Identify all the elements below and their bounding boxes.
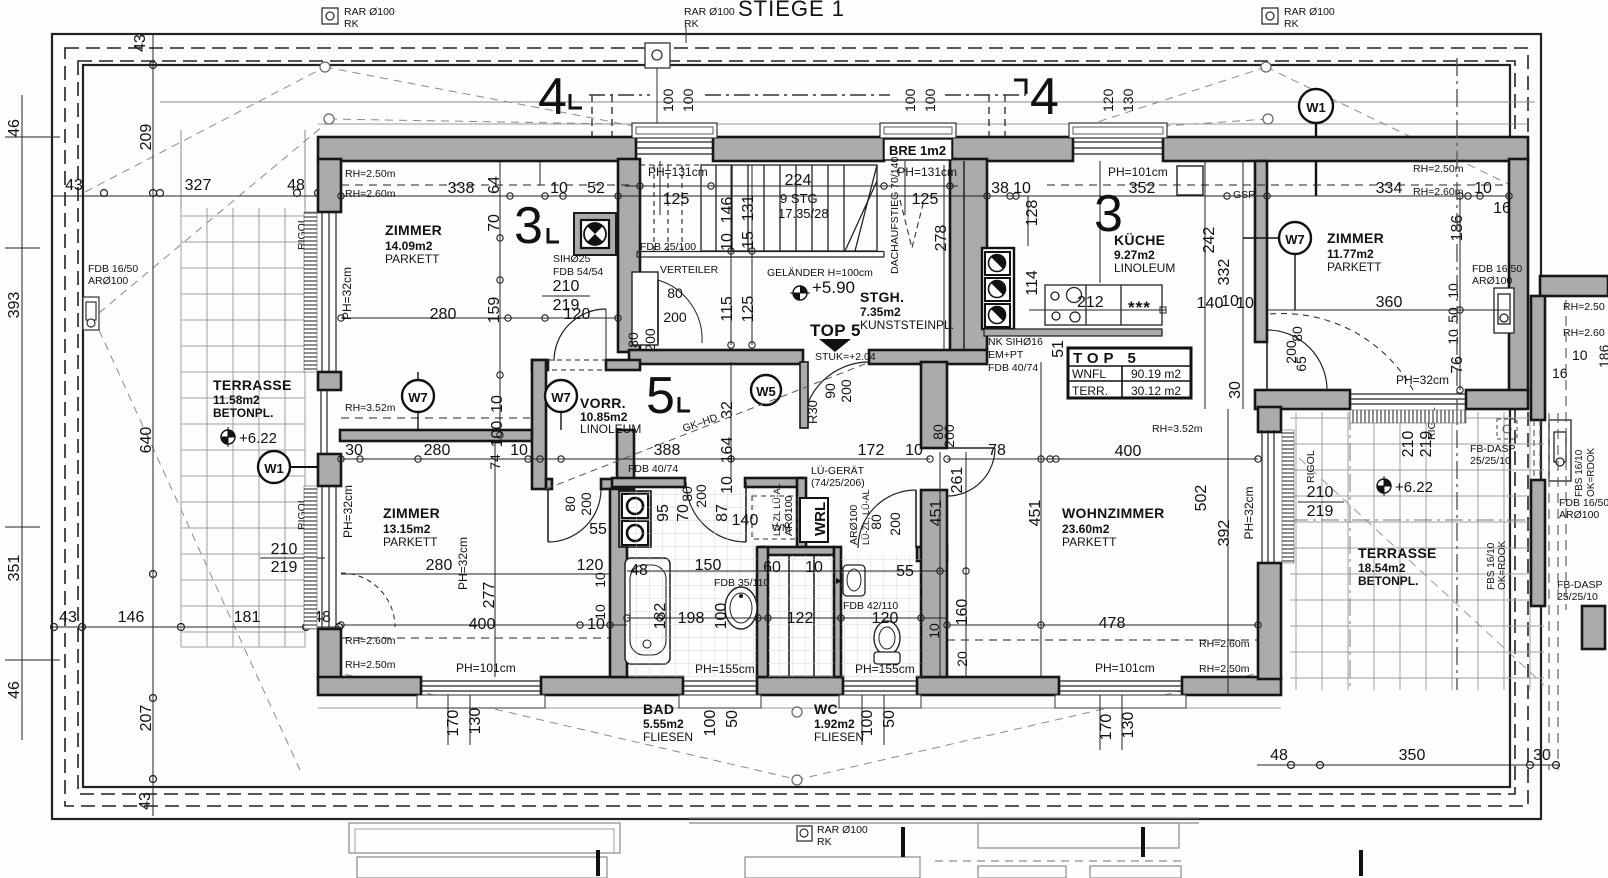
svg-text:332: 332	[1216, 259, 1233, 286]
svg-text:RH=2.60m: RH=2.60m	[1413, 186, 1464, 198]
svg-text:LÜ-GERÄT: LÜ-GERÄT	[811, 465, 865, 477]
svg-text:RIGOL: RIGOL	[1305, 450, 1317, 483]
svg-text:90.19 m2: 90.19 m2	[1131, 367, 1181, 381]
toilet	[874, 621, 900, 664]
svg-text:30: 30	[345, 442, 363, 459]
svg-text:100: 100	[680, 88, 696, 112]
vorr south wall	[340, 430, 532, 441]
wohnzimmer east wall	[1258, 407, 1281, 432]
svg-text:RK: RK	[1284, 18, 1299, 30]
svg-text:10: 10	[805, 559, 823, 576]
svg-text:ZIMMER: ZIMMER	[1327, 230, 1384, 246]
svg-text:200: 200	[941, 424, 957, 448]
svg-text:48: 48	[1270, 747, 1288, 764]
inner dashed frame	[78, 61, 1515, 794]
svg-text:+6.22: +6.22	[1395, 479, 1433, 496]
svg-text:48: 48	[287, 177, 305, 194]
svg-text:11.58m2: 11.58m2	[213, 393, 260, 407]
svg-text:25/25/10: 25/25/10	[1557, 591, 1598, 603]
svg-text:10: 10	[592, 604, 608, 620]
svg-text:PH=155cm: PH=155cm	[695, 662, 755, 676]
dims near left terrace	[271, 278, 1435, 576]
svg-text:186: 186	[1596, 344, 1608, 368]
svg-text:10: 10	[1013, 180, 1031, 197]
W markers	[258, 222, 1311, 483]
svg-text:277: 277	[481, 582, 498, 609]
svg-text:RK: RK	[344, 18, 359, 30]
svg-text:32: 32	[719, 401, 736, 419]
svg-text:RAR Ø100: RAR Ø100	[1284, 6, 1335, 18]
svg-text:170: 170	[1098, 714, 1115, 741]
svg-text:100: 100	[922, 88, 938, 112]
svg-text:278: 278	[933, 225, 950, 252]
svg-text:RH=2.50m: RH=2.50m	[1199, 663, 1250, 675]
bad west wall	[610, 489, 627, 677]
stairwell right / kueche wall	[950, 159, 987, 351]
svg-text:7.35m2: 7.35m2	[860, 305, 901, 319]
svg-text:60: 60	[763, 559, 781, 576]
svg-text:210: 210	[553, 278, 580, 295]
svg-text:224: 224	[785, 172, 812, 189]
svg-text:TOP 5: TOP 5	[810, 321, 861, 340]
SIH in top wall	[574, 213, 616, 255]
svg-text:280: 280	[426, 557, 453, 574]
svg-text:140: 140	[732, 512, 759, 529]
svg-text:10: 10	[1445, 283, 1461, 299]
svg-text:15: 15	[740, 231, 757, 249]
neighbour window fixture	[1549, 420, 1571, 481]
kitchen appliance stack	[982, 248, 1162, 336]
svg-text:131: 131	[740, 195, 757, 222]
svg-text:146: 146	[118, 609, 145, 626]
svg-text:80: 80	[562, 496, 578, 512]
svg-text:200: 200	[578, 492, 594, 516]
svg-text:SIHØ25: SIHØ25	[553, 253, 591, 265]
svg-text:5.55m2: 5.55m2	[643, 717, 684, 731]
svg-text:16: 16	[1552, 365, 1568, 381]
svg-text:114: 114	[1024, 270, 1041, 296]
svg-text:200: 200	[663, 309, 687, 325]
svg-text:PH=131cm: PH=131cm	[897, 165, 957, 179]
svg-text:BRE 1m2: BRE 1m2	[889, 143, 946, 158]
svg-text:FDB 25/100: FDB 25/100	[640, 241, 696, 253]
svg-text:100: 100	[702, 710, 719, 737]
svg-text:FDB 54/54: FDB 54/54	[553, 266, 603, 278]
svg-text:10: 10	[905, 442, 923, 459]
svg-text:3: 3	[1094, 185, 1123, 243]
svg-text:VERTEILER: VERTEILER	[660, 264, 719, 276]
svg-text:OK=RDOK: OK=RDOK	[1497, 540, 1508, 590]
svg-text:FBS 16/10: FBS 16/10	[1486, 542, 1497, 590]
svg-text:261: 261	[949, 467, 966, 494]
svg-text:RH=3.52m: RH=3.52m	[1152, 423, 1203, 435]
svg-text:+5.90: +5.90	[812, 278, 855, 297]
outer dashed frame	[65, 48, 1528, 806]
svg-text:4: 4	[538, 68, 567, 126]
wohnzimmer west wall	[921, 362, 947, 448]
svg-text:FDB 16/50: FDB 16/50	[1472, 263, 1522, 275]
svg-text:392: 392	[1216, 520, 1233, 547]
svg-text:RAR Ø100: RAR Ø100	[684, 6, 735, 18]
svg-text:334: 334	[1376, 180, 1403, 197]
svg-text:PARKETT: PARKETT	[383, 535, 438, 549]
svg-text:280: 280	[424, 442, 451, 459]
svg-text:5: 5	[646, 367, 675, 425]
svg-text:STGH.: STGH.	[860, 289, 904, 305]
svg-text:10: 10	[550, 180, 568, 197]
svg-text:17.35/28: 17.35/28	[778, 206, 829, 221]
svg-text:STIEGE 1: STIEGE 1	[738, 0, 845, 21]
railing	[637, 252, 884, 258]
svg-text:10: 10	[489, 395, 506, 413]
svg-text:PH=32cm: PH=32cm	[1396, 373, 1449, 387]
svg-text:64: 64	[486, 176, 503, 194]
dachaufstieg arrow	[900, 200, 924, 248]
svg-text:122: 122	[787, 610, 814, 627]
svg-text:327: 327	[185, 177, 212, 194]
svg-text:100: 100	[489, 421, 506, 448]
stairwell bottom wall	[629, 350, 803, 364]
svg-text:16: 16	[1493, 200, 1511, 217]
svg-text:150: 150	[695, 557, 722, 574]
svg-text:TERRASSE: TERRASSE	[213, 377, 292, 393]
svg-text:95: 95	[655, 504, 672, 522]
svg-text:9 STG: 9 STG	[780, 191, 818, 206]
svg-text:BAD: BAD	[643, 701, 674, 717]
svg-text:115: 115	[719, 296, 736, 322]
svg-text:20: 20	[954, 651, 970, 667]
svg-text:198: 198	[678, 610, 705, 627]
bottom wall	[318, 677, 421, 695]
svg-text:207: 207	[138, 705, 155, 732]
RAR boxes top	[322, 8, 1278, 68]
svg-text:FLIESEN: FLIESEN	[814, 730, 864, 744]
svg-text:46: 46	[6, 681, 23, 699]
W1 top right	[1299, 89, 1333, 123]
svg-text:3: 3	[514, 197, 543, 255]
sill boxes below bottom wall	[417, 695, 1186, 708]
svg-text:BETONPL.: BETONPL.	[1358, 574, 1418, 588]
svg-text:RK: RK	[817, 836, 832, 848]
svg-text:PH=32cm: PH=32cm	[456, 537, 470, 590]
svg-text:FB-DASP: FB-DASP	[1470, 443, 1516, 455]
svg-text:120: 120	[577, 557, 604, 574]
svg-text:13.15m2: 13.15m2	[383, 522, 431, 536]
WRL box	[800, 498, 828, 542]
svg-text:TERRASSE: TERRASSE	[1358, 545, 1437, 561]
svg-text:FDB 42/110: FDB 42/110	[843, 600, 898, 612]
svg-text:RH=2.60m: RH=2.60m	[345, 188, 396, 200]
svg-text:200: 200	[693, 484, 709, 508]
svg-text:210: 210	[1400, 431, 1417, 458]
svg-text:LINOLEUM: LINOLEUM	[1114, 261, 1175, 275]
svg-text:PH=32cm: PH=32cm	[341, 485, 355, 538]
svg-text:W7: W7	[1285, 232, 1305, 247]
svg-text:46: 46	[6, 119, 23, 137]
small italic labels	[340, 157, 1608, 676]
svg-text:GSP: GSP	[1233, 189, 1255, 201]
svg-text:125: 125	[663, 191, 690, 208]
svg-text:W5: W5	[756, 384, 776, 399]
svg-text:65: 65	[1293, 356, 1309, 372]
svg-text:PH=101cm: PH=101cm	[456, 661, 516, 675]
svg-text:182: 182	[652, 603, 669, 630]
hatch strips (rigol)	[304, 212, 1466, 629]
svg-text:LÜ-ZL, LÜ-AL: LÜ-ZL, LÜ-AL	[861, 489, 871, 545]
svg-text:100: 100	[713, 603, 730, 630]
svg-text:PARKETT: PARKETT	[385, 252, 440, 266]
svg-text:351: 351	[6, 555, 23, 582]
svg-text:400: 400	[469, 616, 496, 633]
svg-text:70: 70	[675, 504, 692, 522]
svg-text:14.09m2: 14.09m2	[385, 239, 433, 253]
svg-text:50: 50	[724, 710, 741, 728]
stairwell left wall	[618, 159, 640, 352]
svg-text:W1: W1	[264, 461, 284, 476]
svg-text:PH=32cm: PH=32cm	[340, 267, 354, 320]
svg-text:4: 4	[1030, 68, 1059, 126]
svg-text:10: 10	[1445, 329, 1461, 345]
svg-text:DACHAUFSTIEG 70/140: DACHAUFSTIEG 70/140	[889, 157, 901, 274]
level mark +5.90	[790, 278, 855, 300]
svg-text:140: 140	[1197, 295, 1224, 312]
svg-text:RK: RK	[684, 18, 699, 30]
svg-text:130: 130	[1120, 712, 1137, 739]
svg-text:PARKETT: PARKETT	[1062, 535, 1117, 549]
svg-text:640: 640	[138, 427, 155, 454]
svg-text:LINOLEUM: LINOLEUM	[580, 422, 641, 436]
svg-text:TOP 5: TOP 5	[1073, 350, 1141, 367]
svg-text:70: 70	[486, 214, 503, 232]
svg-text:RH=3.52m: RH=3.52m	[345, 402, 396, 414]
svg-text:BETONPL.: BETONPL.	[213, 406, 273, 420]
svg-text:W7: W7	[551, 390, 571, 405]
svg-text:360: 360	[1376, 294, 1403, 311]
svg-text:87: 87	[714, 504, 731, 522]
svg-text:10: 10	[926, 623, 942, 639]
svg-text:18.54m2: 18.54m2	[1358, 561, 1406, 575]
svg-text:43: 43	[59, 609, 77, 626]
svg-text:STUK=+2.04: STUK=+2.04	[815, 351, 876, 363]
wc basin	[836, 565, 865, 596]
svg-text:W7: W7	[408, 390, 428, 405]
svg-text:120: 120	[1100, 88, 1116, 112]
svg-text:23.60m2: 23.60m2	[1062, 522, 1110, 536]
top wall	[318, 137, 636, 161]
svg-text:48: 48	[630, 562, 648, 579]
svg-text:NK SIHØ16: NK SIHØ16	[988, 336, 1043, 348]
svg-text:EM+PT: EM+PT	[988, 349, 1024, 361]
svg-text:30.12 m2: 30.12 m2	[1131, 384, 1181, 398]
svg-text:43: 43	[65, 177, 83, 194]
svg-text:350: 350	[1399, 747, 1426, 764]
svg-text:WC: WC	[814, 701, 838, 717]
svg-text:ZIMMER: ZIMMER	[385, 222, 442, 238]
svg-text:+6.22: +6.22	[239, 430, 277, 447]
svg-text:PARKETT: PARKETT	[1327, 260, 1382, 274]
svg-text:ARØ100: ARØ100	[88, 275, 128, 287]
svg-text:TERR.: TERR.	[1072, 384, 1108, 398]
svg-text:RH=2.50m: RH=2.50m	[1413, 163, 1464, 175]
svg-text:209: 209	[138, 124, 155, 151]
svg-text:181: 181	[234, 609, 261, 626]
svg-text:RAR Ø100: RAR Ø100	[344, 6, 395, 18]
svg-text:38: 38	[991, 180, 1009, 197]
BRE box in wall	[884, 139, 952, 160]
svg-text:RH=2.60m: RH=2.60m	[1199, 638, 1250, 650]
svg-text:10: 10	[510, 442, 528, 459]
svg-text:219: 219	[1418, 431, 1435, 458]
svg-text:FDB 40/74: FDB 40/74	[988, 362, 1038, 374]
svg-text:338: 338	[448, 180, 475, 197]
svg-text:393: 393	[6, 292, 23, 319]
svg-text:9.27m2: 9.27m2	[1114, 248, 1155, 262]
right wall upper zimmer	[1509, 159, 1528, 392]
bath tub	[625, 558, 670, 664]
kitchen counter	[1045, 285, 1162, 325]
svg-text:VORR.: VORR.	[580, 395, 626, 411]
svg-text:25/25/10: 25/25/10	[1470, 455, 1511, 467]
svg-text:219: 219	[271, 559, 298, 576]
svg-text:FDB 16/50: FDB 16/50	[1559, 497, 1608, 509]
svg-text:FDB 35/110: FDB 35/110	[714, 577, 769, 589]
svg-text:478: 478	[1099, 615, 1126, 632]
svg-text:55: 55	[589, 521, 607, 538]
svg-text:10: 10	[1572, 347, 1588, 363]
svg-text:10: 10	[719, 233, 736, 251]
svg-text:100: 100	[859, 710, 876, 737]
svg-text:164: 164	[719, 437, 736, 464]
svg-text:210: 210	[271, 541, 298, 558]
svg-text:200: 200	[887, 512, 903, 536]
100/100 labels top	[660, 88, 1136, 112]
svg-text:170: 170	[445, 710, 462, 737]
TOP 5 table	[1068, 348, 1191, 398]
svg-text:200: 200	[838, 379, 854, 403]
right wall small window + fixture	[1494, 288, 1514, 333]
svg-text:10: 10	[719, 476, 736, 494]
neighbour right	[1540, 276, 1608, 296]
svg-text:RAR Ø100: RAR Ø100	[817, 824, 868, 836]
svg-text:78: 78	[988, 442, 1006, 459]
svg-text:212: 212	[1077, 294, 1104, 311]
right zimmer south wall	[1255, 390, 1350, 409]
svg-text:11.77m2: 11.77m2	[1327, 247, 1374, 261]
svg-text:120: 120	[564, 306, 591, 323]
svg-text:451: 451	[1027, 500, 1044, 527]
svg-text:10: 10	[1474, 180, 1492, 197]
svg-text:FLIESEN: FLIESEN	[643, 730, 693, 744]
tiles bad/wc	[629, 489, 757, 677]
svg-text:FBS 16/10: FBS 16/10	[1574, 449, 1585, 497]
eave line	[160, 101, 1535, 103]
svg-text:210: 210	[1307, 484, 1334, 501]
svg-text:PH=155cm: PH=155cm	[855, 662, 915, 676]
svg-text:146: 146	[719, 197, 736, 224]
svg-text:1.92m2: 1.92m2	[814, 717, 855, 731]
svg-text:PH=101cm: PH=101cm	[1095, 661, 1155, 675]
svg-text:100: 100	[902, 88, 918, 112]
svg-text:W1: W1	[1306, 100, 1326, 115]
svg-text:172: 172	[858, 442, 885, 459]
svg-text:80: 80	[667, 285, 683, 301]
svg-text:WRL: WRL	[812, 502, 829, 536]
svg-text:120: 120	[872, 610, 899, 627]
svg-text:219: 219	[1307, 503, 1334, 520]
svg-text:159: 159	[486, 297, 503, 324]
svg-text:451: 451	[928, 500, 945, 527]
svg-text:RH=2.50m: RH=2.50m	[345, 168, 396, 180]
verteiler closet	[632, 272, 658, 345]
svg-text:43: 43	[137, 792, 154, 810]
left wall	[318, 159, 341, 212]
svg-text:FDB 40/74: FDB 40/74	[628, 463, 678, 475]
svg-text:10: 10	[592, 572, 608, 588]
svg-text:GELÄNDER H=100cm: GELÄNDER H=100cm	[767, 267, 873, 279]
svg-text:100: 100	[660, 88, 676, 112]
bad/wc divider	[757, 547, 768, 677]
svg-text:WNFL: WNFL	[1072, 367, 1106, 381]
svg-text:80: 80	[1289, 326, 1305, 342]
svg-text:ARØ100: ARØ100	[1472, 275, 1512, 287]
svg-text:RH=2.50: RH=2.50	[1563, 301, 1605, 313]
svg-text:80: 80	[625, 332, 641, 348]
top zimmer south wall (right part with door)	[532, 360, 548, 370]
svg-text:52: 52	[587, 180, 605, 197]
svg-text:388: 388	[654, 442, 681, 459]
svg-text:PH=32cm: PH=32cm	[1242, 486, 1256, 539]
svg-text:125: 125	[740, 296, 757, 323]
svg-text:KUNSTSTEINPL.: KUNSTSTEINPL.	[860, 318, 954, 332]
svg-text:***: ***	[1128, 298, 1151, 317]
svg-text:130: 130	[1120, 88, 1136, 112]
svg-text:WOHNZIMMER: WOHNZIMMER	[1062, 505, 1165, 521]
svg-text:RH=2.60: RH=2.60	[1563, 327, 1605, 339]
svg-text:128: 128	[1024, 200, 1041, 227]
svg-text:400: 400	[1115, 443, 1142, 460]
svg-text:30: 30	[1533, 747, 1551, 764]
svg-text:242: 242	[1201, 227, 1218, 254]
window glass lines: top wall	[321, 142, 1466, 691]
svg-text:50: 50	[1445, 307, 1461, 323]
svg-text:ZIMMER: ZIMMER	[383, 505, 440, 521]
svg-text:RH=2.60m: RH=2.60m	[345, 635, 396, 647]
entrance triangle	[819, 339, 851, 352]
left outside fixture	[83, 297, 99, 330]
inner line of double wall	[963, 161, 965, 351]
svg-text:200: 200	[642, 328, 658, 352]
svg-text:ARØ100: ARØ100	[1559, 509, 1599, 521]
svg-text:55: 55	[896, 563, 914, 580]
kueche / right zimmer wall	[1255, 161, 1267, 342]
GSP niche	[1177, 166, 1203, 195]
svg-text:RH=2.50m: RH=2.50m	[345, 659, 396, 671]
svg-text:PH=101cm: PH=101cm	[1108, 165, 1168, 179]
svg-text:R30: R30	[805, 400, 820, 424]
svg-text:74: 74	[487, 454, 503, 470]
svg-text:90: 90	[822, 383, 838, 399]
inner solid frame	[83, 65, 1510, 787]
bad appliances (two squares)	[619, 491, 651, 547]
svg-text:WM: WM	[772, 522, 791, 534]
svg-text:FB-DASP: FB-DASP	[1557, 579, 1603, 591]
svg-text:30: 30	[1227, 381, 1244, 399]
svg-text:130: 130	[467, 708, 484, 735]
bottom outside faint structures	[349, 818, 1199, 878]
svg-text:280: 280	[430, 306, 457, 323]
svg-text:ARØ100: ARØ100	[848, 505, 860, 545]
svg-text:(74/25/206): (74/25/206)	[811, 477, 865, 489]
